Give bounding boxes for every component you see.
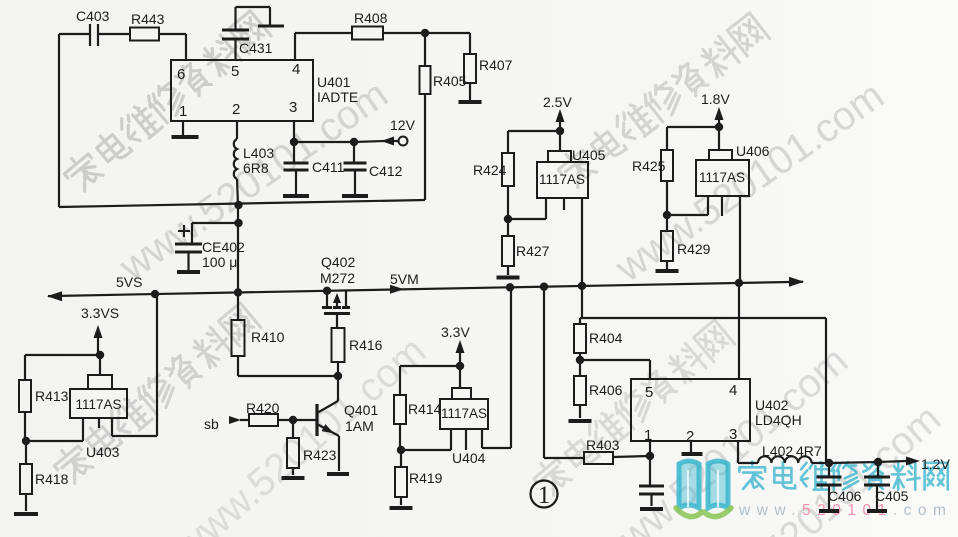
- svg-text:U406: U406: [736, 143, 770, 159]
- svg-text:C406: C406: [828, 488, 862, 504]
- svg-text:LD4QH: LD4QH: [755, 412, 802, 428]
- svg-text:1.8V: 1.8V: [701, 91, 730, 107]
- svg-text:C412: C412: [369, 163, 403, 179]
- svg-text:L402: L402: [762, 443, 793, 459]
- svg-text:3.3VS: 3.3VS: [81, 305, 119, 321]
- svg-text:6: 6: [177, 66, 185, 83]
- svg-text:1AM: 1AM: [345, 418, 374, 434]
- svg-text:R406: R406: [589, 382, 623, 398]
- svg-text:CE402: CE402: [202, 239, 245, 255]
- svg-text:M272: M272: [320, 270, 355, 286]
- svg-text:1117AS: 1117AS: [539, 172, 585, 187]
- svg-text:R405: R405: [433, 73, 467, 89]
- svg-text:4: 4: [729, 382, 737, 399]
- svg-text:R423: R423: [303, 447, 337, 463]
- svg-text:C431: C431: [239, 40, 273, 56]
- svg-text:5: 5: [645, 384, 653, 401]
- svg-text:IADTE: IADTE: [317, 89, 358, 105]
- svg-text:1.2V: 1.2V: [921, 456, 950, 472]
- svg-text:R407: R407: [479, 57, 513, 73]
- svg-text:sb: sb: [204, 416, 219, 432]
- svg-text:R414: R414: [408, 401, 442, 417]
- svg-text:4R7: 4R7: [796, 443, 822, 459]
- svg-text:1: 1: [179, 103, 187, 120]
- svg-text:R419: R419: [409, 470, 443, 486]
- svg-text:R416: R416: [349, 337, 383, 353]
- svg-text:1117AS: 1117AS: [75, 397, 121, 412]
- svg-text:R427: R427: [516, 243, 550, 259]
- svg-text:R420: R420: [246, 400, 280, 416]
- svg-text:1117AS: 1117AS: [441, 406, 487, 421]
- svg-text:3: 3: [729, 426, 737, 443]
- svg-text:C405: C405: [875, 488, 909, 504]
- svg-text:6R8: 6R8: [243, 160, 269, 176]
- svg-text:L403: L403: [243, 145, 274, 161]
- svg-text:R425: R425: [632, 158, 666, 174]
- svg-text:R403: R403: [586, 437, 620, 453]
- svg-text:2: 2: [232, 101, 240, 118]
- svg-text:R410: R410: [251, 329, 285, 345]
- svg-text:U403: U403: [86, 444, 120, 460]
- svg-text:R443: R443: [131, 11, 165, 27]
- svg-text:C411: C411: [312, 159, 345, 175]
- svg-text:1: 1: [538, 482, 551, 509]
- svg-text:100 μ: 100 μ: [202, 254, 237, 270]
- svg-text:R418: R418: [35, 471, 69, 487]
- svg-text:2.5V: 2.5V: [543, 94, 572, 110]
- svg-text:3.3V: 3.3V: [441, 324, 470, 340]
- svg-text:R413: R413: [35, 388, 69, 404]
- svg-text:R404: R404: [589, 330, 623, 346]
- svg-text:www.520101.com: www.520101.com: [738, 502, 952, 519]
- svg-text:12V: 12V: [390, 117, 416, 133]
- svg-text:U405: U405: [572, 147, 606, 163]
- svg-text:R408: R408: [354, 10, 388, 26]
- svg-text:U402: U402: [755, 397, 789, 413]
- svg-text:R429: R429: [677, 241, 711, 257]
- svg-text:3: 3: [289, 99, 297, 116]
- svg-text:1117AS: 1117AS: [699, 170, 745, 185]
- svg-text:5: 5: [231, 63, 239, 80]
- svg-text:Q401: Q401: [344, 402, 378, 418]
- svg-text:4: 4: [292, 61, 300, 78]
- svg-text:C403: C403: [76, 8, 110, 24]
- svg-text:U404: U404: [452, 450, 486, 466]
- svg-text:U401: U401: [317, 74, 351, 90]
- svg-text:5VS: 5VS: [116, 274, 142, 290]
- svg-text:R424: R424: [473, 162, 507, 178]
- svg-text:5VM: 5VM: [390, 271, 419, 287]
- svg-text:Q402: Q402: [321, 254, 355, 270]
